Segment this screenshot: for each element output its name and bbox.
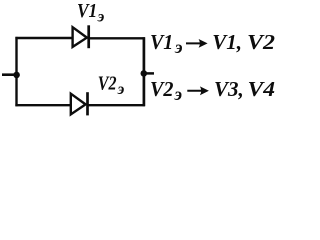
arrow in line 1 [186,39,208,48]
wire: bottom rail left segment [15,104,71,106]
wire: left vertical [15,37,17,106]
wire: left terminal stub [2,73,17,76]
wire: right vertical [143,37,146,106]
svg-text:V2: V2 [247,30,276,54]
diode V2э cathode bar [86,92,89,115]
wire: top rail left segment [15,37,72,39]
svg-text:V2: V2 [150,77,174,101]
diode V1э triangle [73,27,87,47]
node: left junction dot [13,72,20,79]
wire: right terminal stub [144,72,154,75]
svg-text:V4: V4 [248,77,276,101]
wire: top rail right segment [89,37,145,39]
diode V2э triangle [71,94,86,115]
svg-text:э: э [97,8,105,25]
svg-text:V2: V2 [98,73,117,95]
svg-text:V3,: V3, [214,77,244,101]
svg-text:э: э [174,84,182,104]
svg-text:V1: V1 [150,30,173,54]
node: right junction dot [141,70,148,77]
svg-text:э: э [117,81,125,98]
svg-text:V1,: V1, [212,30,242,54]
wire: bottom rail right segment [87,104,144,106]
svg-text:V1: V1 [77,0,97,22]
arrow in line 2 [187,86,209,95]
svg-text:э: э [174,37,182,57]
diode V1э cathode bar [87,25,90,48]
